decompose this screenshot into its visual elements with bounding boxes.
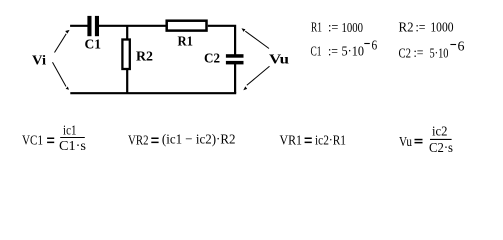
- equation VR1 equals: [305, 138, 312, 144]
- svg-text:C1: C1: [311, 45, 322, 60]
- capacitor C2: [226, 54, 244, 64]
- wire C2 lower lead: [234, 64, 236, 93]
- svg-text:5·10: 5·10: [342, 45, 365, 60]
- svg-text::=: :=: [328, 45, 338, 60]
- equation C1 exponent minus sign: [364, 43, 370, 45]
- svg-text:ic1: ic1: [63, 123, 77, 138]
- equation VC1 fraction bar: [60, 137, 85, 139]
- svg-text:6: 6: [458, 39, 465, 54]
- svg-text:5·10: 5·10: [430, 46, 449, 61]
- svg-text:C1·s: C1·s: [59, 139, 86, 154]
- wire top right segment with corner: [208, 26, 235, 55]
- arrow Vu plus terminal: [242, 28, 270, 48]
- wire top middle segment: [99, 25, 166, 27]
- arrow Vi minus terminal: [53, 62, 70, 90]
- svg-text:R1: R1: [178, 35, 194, 50]
- arrow Vi plus terminal: [55, 30, 70, 53]
- svg-text:(ic1 − ic2)·R2: (ic1 − ic2)·R2: [162, 132, 236, 147]
- wire R2 lower lead: [126, 69, 128, 93]
- svg-text:6: 6: [372, 39, 378, 54]
- arrow Vu minus terminal: [243, 66, 269, 90]
- wire top left segment: [70, 25, 88, 27]
- svg-text:R1: R1: [311, 21, 322, 36]
- svg-text:C2: C2: [204, 52, 220, 67]
- equation C2 exponent minus sign: [450, 44, 456, 46]
- wire bottom segment: [70, 92, 236, 94]
- equation VC1 equals: [47, 138, 54, 144]
- svg-text:ic2·R1: ic2·R1: [315, 134, 346, 149]
- svg-text:R2: R2: [399, 21, 414, 36]
- svg-text:C2·s: C2·s: [429, 141, 453, 156]
- svg-text:Vi: Vi: [32, 54, 46, 69]
- equation VR2 equals: [151, 138, 158, 144]
- resistor R1: [167, 21, 207, 31]
- svg-text::=: :=: [414, 46, 424, 61]
- svg-text:Vu: Vu: [269, 53, 289, 68]
- svg-text:ic2: ic2: [432, 125, 448, 140]
- svg-text::=: :=: [328, 21, 338, 36]
- svg-text:VR1: VR1: [280, 134, 303, 149]
- svg-text:1000: 1000: [430, 21, 453, 36]
- svg-text:VC1: VC1: [22, 134, 43, 149]
- svg-text:C2: C2: [399, 46, 412, 61]
- svg-text::=: :=: [416, 21, 426, 36]
- svg-text:R2: R2: [136, 50, 153, 65]
- svg-text:1000: 1000: [342, 21, 364, 36]
- resistor R2: [122, 40, 129, 70]
- equation Vu fraction bar: [430, 138, 452, 140]
- svg-text:C1: C1: [85, 38, 102, 53]
- equation Vu equals: [415, 139, 423, 144]
- wire R2 upper lead: [126, 26, 128, 39]
- capacitor C1: [87, 16, 99, 36]
- svg-text:VR2: VR2: [128, 134, 149, 149]
- svg-text:Vu: Vu: [399, 135, 412, 150]
